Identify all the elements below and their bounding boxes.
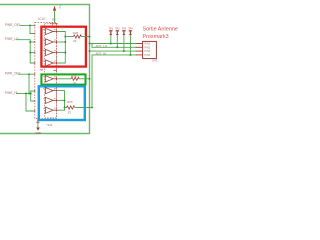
svg-text:PWR_OE1: PWR_OE1 bbox=[5, 23, 21, 27]
ground symbol arrow bbox=[36, 128, 40, 131]
svg-text:33: 33 bbox=[73, 81, 77, 85]
antenna loop net (big green rectangle, left side clipped) bbox=[0, 5, 90, 134]
supply net label bbox=[58, 4, 62, 9]
ground wire bbox=[37, 124, 39, 128]
gate output pin stubs (dark red) bbox=[53, 32, 57, 111]
junction riser bbox=[91, 107, 93, 109]
wire B jog + to pin2 bbox=[92, 44, 136, 48]
wire A to connector pin1 bbox=[90, 43, 137, 45]
svg-text:R16: R16 bbox=[71, 74, 77, 78]
IC package dashed outline bbox=[35, 22, 57, 118]
buffer gate 2 bbox=[45, 39, 53, 45]
wire stub gate2 bbox=[30, 41, 35, 43]
test point TP2 bbox=[115, 27, 120, 48]
buffer gate 7 bbox=[45, 97, 53, 103]
gates: triangles + stubs bbox=[45, 28, 53, 113]
svg-text:R25: R25 bbox=[67, 100, 73, 104]
IC pin ticks input side bbox=[33, 24, 36, 112]
svg-text:Proxmark3: Proxmark3 bbox=[143, 34, 169, 40]
svg-text:SV2: SV2 bbox=[152, 59, 157, 63]
svg-text:IC10: IC10 bbox=[38, 17, 45, 21]
test point TP3 bbox=[122, 27, 127, 52]
pin mark bbox=[36, 121, 39, 123]
wire R16 out to loop bbox=[79, 78, 90, 80]
IC pin ticks output side bbox=[55, 31, 58, 112]
buffer gate 3 bbox=[45, 49, 53, 55]
GND pin stub bbox=[37, 120, 39, 125]
junction bbox=[29, 24, 31, 26]
wire D riser from R25 up to pin4 bbox=[92, 55, 136, 108]
svg-text:33: 33 bbox=[73, 39, 77, 43]
wire PWR_LO bus bbox=[16, 40, 35, 63]
buffer gate 8 bbox=[45, 107, 53, 113]
junction dots PWR_HI bus bbox=[28, 93, 30, 95]
wire C to pin3 bbox=[90, 50, 137, 52]
resistor R16 bbox=[71, 77, 79, 80]
svg-text:33: 33 bbox=[68, 110, 72, 114]
pin number micro-labels bbox=[43, 29, 55, 109]
green highlight box bbox=[41, 74, 85, 84]
svg-text:*244: *244 bbox=[47, 123, 53, 127]
wire to R25 bbox=[65, 107, 67, 109]
wire to R28 bbox=[65, 36, 73, 38]
green box: wire to R16 bbox=[57, 78, 71, 80]
svg-text:PWR_HI: PWR_HI bbox=[5, 91, 18, 95]
svg-text:ANT_HI: ANT_HI bbox=[96, 51, 107, 55]
wire PWR_OE1 bbox=[20, 24, 35, 26]
output bus blue box bbox=[57, 91, 64, 111]
connector SV2 pin leads bbox=[136, 44, 143, 55]
svg-text:ANT_LO: ANT_LO bbox=[96, 44, 108, 48]
svg-text:R28: R28 bbox=[73, 31, 79, 35]
junction R16/loop bbox=[89, 78, 91, 80]
resistor R28 bbox=[73, 35, 81, 38]
wire VCC pin bbox=[54, 11, 56, 23]
branch to OE pin bbox=[30, 25, 35, 33]
wire PWR_OE2 bbox=[18, 73, 35, 75]
svg-text:PIN1: PIN1 bbox=[145, 42, 151, 46]
inter-box micro texts bbox=[40, 69, 43, 70]
bus links g2 g3 bbox=[57, 41, 65, 43]
output bus red box bbox=[57, 32, 65, 64]
svg-text:PWR_OE2: PWR_OE2 bbox=[5, 72, 21, 76]
svg-text:+5V: +5V bbox=[58, 4, 62, 9]
junction riser bbox=[28, 73, 30, 75]
test point TP1 bbox=[109, 27, 114, 44]
bus gates 6-7 bbox=[31, 91, 35, 101]
svg-text:TP4: TP4 bbox=[128, 27, 133, 30]
svg-text:TP3: TP3 bbox=[122, 27, 127, 30]
wire PWR_HI bbox=[16, 93, 30, 95]
junction dots bus bbox=[64, 36, 66, 38]
riser OE2 to PWR_HI row bbox=[28, 74, 30, 93]
svg-text:PIN3: PIN3 bbox=[145, 49, 151, 53]
resistor R25 bbox=[67, 106, 75, 109]
red highlight box bbox=[41, 27, 86, 67]
connector SV2 body bbox=[143, 41, 157, 58]
buffer gate 5 (green box) bbox=[45, 76, 53, 82]
svg-text:PIN4: PIN4 bbox=[145, 53, 151, 57]
svg-text:N$2: N$2 bbox=[60, 28, 65, 30]
supply symbol +5V arrow bbox=[53, 6, 56, 11]
junction R28/loop bbox=[89, 36, 91, 38]
svg-text:PIN2: PIN2 bbox=[145, 45, 151, 49]
wire stub gate3 bbox=[30, 52, 35, 54]
buffer gate 1 bbox=[45, 28, 53, 34]
svg-text:TP2: TP2 bbox=[115, 27, 120, 30]
svg-text:Sortie Antenne: Sortie Antenne bbox=[143, 27, 178, 33]
junction dots PWR_LO bus bbox=[29, 41, 31, 43]
svg-text:TP1: TP1 bbox=[109, 27, 114, 30]
wire R25 out across loop to riser bbox=[75, 107, 92, 109]
buffer gate 6 bbox=[45, 88, 53, 94]
svg-text:GND: GND bbox=[35, 132, 41, 135]
test point TP4 bbox=[128, 27, 133, 55]
buffer gate 4 bbox=[45, 60, 53, 66]
svg-text:PWR_LO: PWR_LO bbox=[5, 37, 19, 41]
blue highlight box bbox=[39, 86, 85, 120]
wire R28 out to loop bbox=[81, 36, 89, 38]
IC inner dashed outline bbox=[45, 23, 57, 117]
IC power pin marks bbox=[50, 22, 58, 26]
branch t_b3 bbox=[26, 94, 35, 112]
